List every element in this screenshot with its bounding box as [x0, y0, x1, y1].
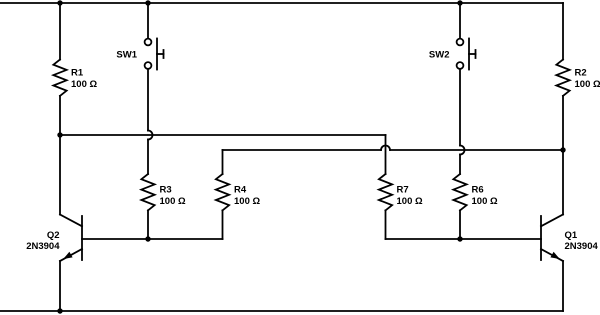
wire Q1 base to R7 — [386, 238, 542, 240]
wire SW1 to R3 upper — [147, 69, 149, 131]
wire R3 bottom lead — [147, 210, 149, 239]
junction R6 / Q1 base — [457, 236, 462, 241]
junction node A / R1 — [57, 132, 62, 137]
svg-text:Q2: Q2 — [47, 230, 60, 241]
resistor R3 — [141, 174, 154, 210]
svg-text:100 Ω: 100 Ω — [234, 196, 260, 207]
svg-text:R4: R4 — [234, 185, 247, 196]
wire Q1 emitter lead — [562, 261, 564, 311]
wire bottom rail — [0, 310, 563, 312]
wire R6 bottom lead — [459, 210, 461, 239]
junction top rail / SW2 — [457, 0, 462, 5]
svg-text:100 Ω: 100 Ω — [472, 196, 498, 207]
resistor R4 — [216, 174, 229, 210]
wire R4 top lead — [222, 150, 224, 174]
junction top rail / R1 — [57, 0, 62, 5]
wire R1 top lead — [59, 3, 61, 60]
wire SW1 top lead — [147, 3, 149, 39]
wire node A drop to R7 — [385, 135, 387, 174]
junction top rail / SW1 — [145, 0, 150, 5]
wire R2 bottom to Q1 collector — [562, 96, 564, 215]
resistor R7 — [379, 174, 392, 210]
svg-text:100 Ω: 100 Ω — [71, 79, 97, 90]
wire Q2 emitter lead — [59, 261, 61, 311]
wire R2 top lead — [562, 3, 564, 60]
svg-text:R2: R2 — [575, 68, 587, 79]
switch SW2 — [457, 39, 476, 70]
wire node A cross-coupling (Q2 collector to R7) — [60, 134, 386, 136]
svg-text:100 Ω: 100 Ω — [397, 196, 423, 207]
svg-text:SW2: SW2 — [429, 50, 450, 61]
junction bottom rail / Q2 emitter — [57, 308, 62, 313]
transistor Q2 — [60, 215, 82, 262]
resistor R1 — [53, 60, 66, 96]
svg-text:R7: R7 — [397, 185, 409, 196]
junction R3 / Q2 base — [145, 236, 150, 241]
switch SW1 — [145, 39, 164, 70]
wire SW2 top lead — [459, 3, 461, 39]
resistor R2 — [556, 60, 569, 96]
svg-text:100 Ω: 100 Ω — [575, 79, 600, 90]
svg-text:2N3904: 2N3904 — [565, 241, 599, 252]
wire Q2 base to R4 — [82, 238, 223, 240]
svg-text:100 Ω: 100 Ω — [160, 196, 186, 207]
svg-text:R3: R3 — [160, 185, 172, 196]
wire SW1 to R3 lower — [147, 140, 149, 175]
wire node B right part (hop to Q1 collector) — [390, 149, 563, 151]
svg-text:R6: R6 — [472, 185, 484, 196]
wire node B hop over R7 drop — [381, 146, 390, 151]
wire R7 bottom lead — [385, 210, 387, 239]
wire top rail — [0, 2, 563, 4]
resistor R6 — [453, 174, 466, 210]
junction node B / Q1 collector — [560, 147, 565, 152]
svg-text:SW1: SW1 — [116, 50, 137, 61]
transistor Q1 — [541, 215, 563, 262]
wire R4 bottom lead — [222, 210, 224, 239]
wire hop over node B — [460, 146, 465, 155]
svg-text:2N3904: 2N3904 — [26, 241, 60, 252]
wire SW2 to R6 upper — [459, 69, 461, 146]
svg-text:R1: R1 — [71, 68, 84, 79]
wire SW2 to R6 lower — [459, 155, 461, 175]
wire R1 bottom to Q2 collector — [59, 96, 61, 215]
wire hop over node A — [148, 131, 153, 140]
wire node B left part (R4 to hop) — [223, 149, 382, 151]
svg-text:Q1: Q1 — [565, 230, 578, 241]
